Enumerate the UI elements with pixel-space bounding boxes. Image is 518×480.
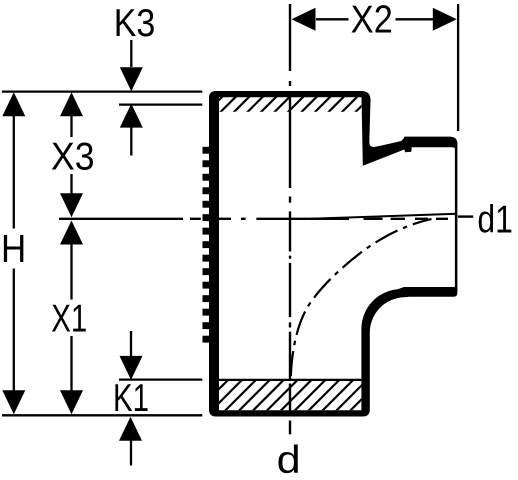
svg-text:d: d (277, 439, 301, 480)
svg-text:X2: X2 (351, 0, 393, 41)
svg-text:H: H (1, 228, 26, 271)
svg-text:X1: X1 (51, 298, 87, 341)
svg-text:K3: K3 (114, 2, 156, 45)
svg-text:K1: K1 (113, 377, 149, 420)
svg-text:d1: d1 (477, 199, 513, 242)
svg-text:X3: X3 (51, 136, 95, 179)
